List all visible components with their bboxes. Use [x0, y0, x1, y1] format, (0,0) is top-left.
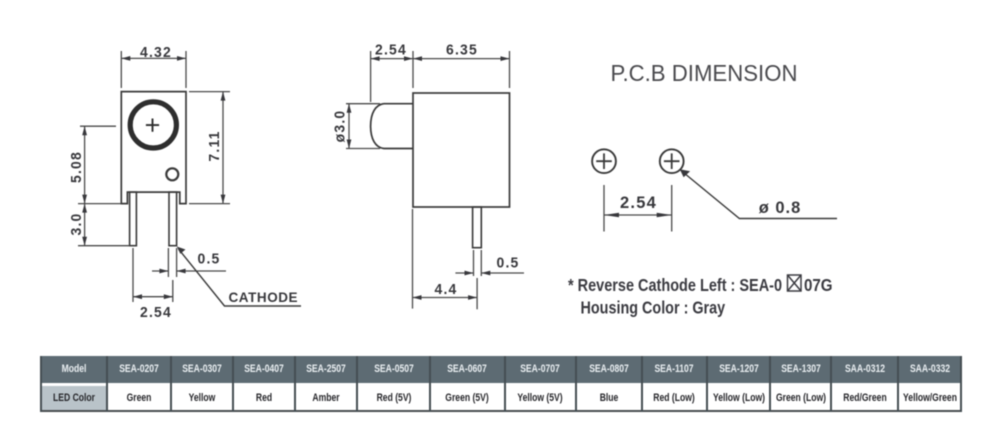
svg-text:5.08: 5.08 — [69, 151, 86, 183]
pad hole left — [592, 149, 616, 173]
header cell SEA-0807 — [576, 356, 642, 383]
header cell SEA-1107 — [642, 356, 708, 383]
data cell Blue — [576, 386, 642, 411]
dim 4.32 — [121, 51, 186, 88]
svg-text:2.54: 2.54 — [620, 193, 657, 212]
dim 6.35 — [413, 51, 510, 88]
dim 5.08 — [78, 126, 121, 203]
dim 2.54 front — [133, 248, 173, 302]
data cell Yellow — [171, 386, 234, 411]
dim 2.54 side — [371, 51, 413, 102]
dia 0.8 leader — [681, 171, 837, 219]
dim 0.5 side lead — [455, 250, 524, 276]
svg-text:4.4: 4.4 — [434, 282, 457, 299]
data cell Yellow/Green — [898, 386, 961, 411]
LED lens front circle — [130, 102, 176, 148]
header cell SEA-1307 — [770, 356, 831, 383]
cathode leader — [179, 249, 302, 306]
dim 2.54 pcb — [604, 185, 672, 232]
dim 7.11 — [189, 92, 230, 204]
side view lens dome — [371, 104, 413, 149]
svg-text:CATHODE: CATHODE — [229, 290, 299, 305]
header cell SEA-1207 — [707, 356, 770, 383]
polarity hole circle — [166, 168, 178, 180]
front right lead — [169, 192, 177, 246]
side view lead — [473, 207, 482, 248]
note box X — [788, 275, 802, 291]
data cell Red — [233, 386, 295, 411]
header cell SEA-0707 — [505, 356, 576, 383]
side view body — [413, 93, 510, 207]
front left lead — [130, 192, 137, 246]
header cell SEA-2507 — [295, 356, 357, 383]
svg-text:7.11: 7.11 — [207, 130, 224, 161]
data cell Red/Green — [831, 386, 898, 411]
data cell Yellow (5V) — [505, 386, 576, 411]
svg-text:4.32: 4.32 — [140, 45, 172, 62]
svg-text:3.0: 3.0 — [69, 212, 86, 235]
table header row background — [41, 356, 962, 383]
svg-text:07G: 07G — [804, 275, 833, 296]
data cell LED Color — [41, 386, 107, 411]
dim dia 3.0 — [346, 104, 380, 149]
data cell Red (5V) — [357, 386, 430, 411]
header cell SEA-0607 — [430, 356, 505, 383]
data cell Yellow (Low) — [707, 386, 770, 411]
header cell SEA-0507 — [357, 356, 430, 383]
header cell SEA-0207 — [107, 356, 170, 383]
model table — [41, 356, 963, 414]
dim 0.5 front lead — [152, 248, 226, 277]
svg-text:ø 0.8: ø 0.8 — [759, 199, 802, 217]
svg-text:0.5: 0.5 — [496, 255, 519, 272]
header cell SEA-0307 — [171, 356, 234, 383]
pad hole right — [660, 149, 684, 173]
svg-text:Housing Color : Gray: Housing Color : Gray — [581, 298, 726, 318]
header cell SAA-0332 — [898, 356, 961, 383]
header cell SEA-0407 — [233, 356, 295, 383]
dim 4.4 — [413, 209, 478, 309]
front view body — [121, 92, 186, 204]
svg-text:2.54: 2.54 — [140, 305, 172, 322]
LED Color cell background — [41, 386, 107, 411]
svg-text:* Reverse Cathode Left : SEA-0: * Reverse Cathode Left : SEA-0 — [568, 276, 782, 296]
dim 3.0 left — [78, 204, 130, 246]
data cell Green (5V) — [430, 386, 505, 411]
table bottom border — [41, 410, 962, 412]
header cell SAA-0312 — [831, 356, 898, 383]
table column lines — [40, 356, 42, 412]
svg-text:2.54: 2.54 — [375, 42, 407, 59]
svg-text:0.5: 0.5 — [197, 251, 220, 268]
header cell Model — [41, 356, 107, 383]
data cell Amber — [295, 386, 357, 411]
data cell Green (Low) — [770, 386, 831, 411]
data cell Red (Low) — [642, 386, 708, 411]
svg-text:6.35: 6.35 — [446, 42, 478, 59]
svg-text:ø3.0: ø3.0 — [332, 110, 349, 143]
data cell Green — [107, 386, 170, 411]
svg-text:P.C.B DIMENSION: P.C.B DIMENSION — [610, 61, 797, 86]
